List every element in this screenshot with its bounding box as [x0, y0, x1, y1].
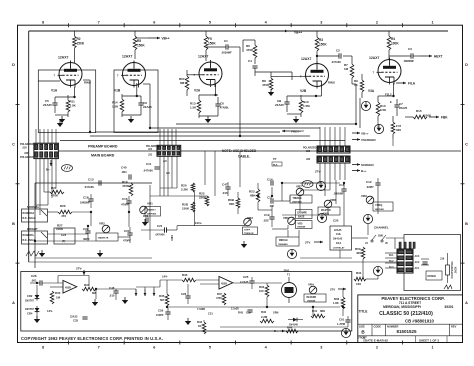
capacitor C91 — [345, 319, 350, 321]
svg-text:.020: .020 — [22, 147, 27, 150]
connector J32 — [317, 156, 350, 163]
stage box V1A — [38, 70, 95, 133]
capacitor C14 — [270, 180, 272, 185]
ground circle a — [361, 101, 370, 110]
svg-text:NOTE: USE SHIELDED: NOTE: USE SHIELDED — [222, 149, 257, 153]
capacitor C16 — [126, 200, 131, 202]
svg-text:C20: C20 — [333, 219, 339, 223]
svg-text:7.040B: 7.040B — [197, 308, 205, 311]
svg-text:1M0B48: 1M0B48 — [297, 226, 306, 229]
resistor R2 — [73, 31, 75, 36]
svg-text:3: 3 — [320, 21, 322, 25]
ground rev2 — [122, 300, 128, 304]
wire tone left vertical — [34, 183, 36, 258]
resistor R5b — [205, 31, 207, 36]
svg-text:PREV=: PREV= — [291, 130, 301, 134]
svg-text:68K: 68K — [250, 194, 256, 198]
capacitor C15 — [341, 188, 346, 190]
enclosure footswitch box — [404, 235, 461, 291]
wire V2A output drop — [239, 47, 241, 136]
tube V1B — [123, 63, 146, 86]
svg-text:R44M61B+: R44M61B+ — [23, 234, 35, 237]
svg-text:C29: C29 — [158, 309, 164, 313]
svg-text:R31: R31 — [356, 271, 362, 275]
ground V1B — [128, 119, 134, 123]
chassis ground tone top — [302, 181, 313, 188]
wire R8 top — [255, 71, 292, 73]
svg-text:476: 476 — [61, 214, 66, 218]
svg-text:SIZE: SIZE — [359, 324, 365, 328]
svg-text:LEVRELAY: LEVRELAY — [333, 247, 345, 250]
wires into J45 — [385, 252, 397, 254]
wires below J20 — [35, 159, 37, 178]
svg-text:FILA: FILA — [408, 82, 416, 86]
capacitor C28 — [185, 295, 190, 297]
wire reverb bottom bus — [220, 326, 348, 328]
svg-text:C3: C3 — [408, 47, 412, 51]
svg-text:CB #98801910: CB #98801910 — [405, 318, 435, 323]
svg-text:MASTER: MASTER — [321, 209, 331, 212]
svg-text:1M0P48S: 1M0P48S — [147, 213, 157, 216]
resistor R40 — [260, 319, 274, 323]
wire V2A grid — [187, 74, 198, 76]
capacitor C6 — [215, 103, 220, 105]
svg-text:C14: C14 — [267, 178, 273, 182]
resistor R34 — [82, 287, 96, 291]
svg-text:R30: R30 — [55, 291, 61, 295]
svg-text:E: E — [390, 100, 392, 104]
svg-text:1M(4M17: 1M(4M17 — [147, 209, 157, 212]
connector J22 — [317, 146, 350, 153]
svg-text:VSCREEN: VSCREEN — [361, 138, 376, 142]
svg-text:5: 5 — [209, 346, 211, 350]
wires above J21 — [159, 129, 161, 145]
zone ticks left/right — [16, 104, 20, 106]
svg-text:1M(4M17B: 1M(4M17B — [98, 237, 109, 240]
wire V2B output drops — [355, 84, 357, 124]
wire mid horizontal bus 5 — [176, 123, 356, 125]
resistor R4 — [388, 31, 390, 36]
capacitor C11 — [154, 166, 159, 168]
diode D 1N4148 — [293, 319, 298, 321]
arrow VB++ right — [352, 132, 360, 134]
svg-text:100K: 100K — [391, 42, 399, 46]
wire tone row 232 — [48, 233, 89, 235]
svg-text:12AX7: 12AX7 — [122, 55, 132, 59]
svg-text:27V-: 27V- — [76, 267, 82, 271]
wire tone bottom — [35, 257, 152, 259]
svg-text:1K: 1K — [198, 324, 202, 328]
svg-text:A/U: A/U — [166, 172, 170, 175]
ground circle tone 1 — [317, 213, 326, 222]
wires tone pots — [282, 182, 340, 184]
svg-text:6M: 6M — [180, 81, 185, 85]
capacitor C21 — [145, 217, 147, 222]
svg-text:VR7: VR7 — [296, 185, 302, 189]
svg-text:J20: J20 — [24, 151, 29, 155]
svg-text:.001: .001 — [31, 279, 37, 283]
diodes J45 right — [421, 258, 429, 260]
resistor R9 — [360, 80, 364, 92]
tube V2A — [199, 62, 222, 85]
svg-text:A: A — [12, 301, 15, 305]
ground V2A — [205, 119, 211, 123]
wire reverb verticals — [166, 280, 168, 294]
svg-text:MIDDLE: MIDDLE — [279, 240, 288, 242]
svg-text:VR3: VR3 — [247, 216, 253, 220]
svg-text:.015: .015 — [222, 191, 228, 195]
wire top supply bus — [29, 30, 448, 32]
svg-text:TP: TP — [273, 157, 277, 161]
svg-text:T1: T1 — [287, 273, 291, 277]
svg-text:22A25: 22A25 — [143, 105, 152, 109]
resistor R35 — [165, 294, 169, 306]
resistor R11 — [66, 100, 70, 112]
svg-text:1M0P48S: 1M0P48S — [292, 200, 302, 203]
svg-text:NUMBER: NUMBER — [387, 324, 399, 328]
svg-text:8: 8 — [42, 346, 44, 350]
svg-text:RING: RING — [84, 81, 91, 85]
reverb circuit box — [21, 272, 352, 332]
chassis ground J20 — [62, 165, 73, 172]
svg-text:R44: R44 — [287, 326, 293, 330]
svg-text:CR4: CR4 — [27, 312, 33, 316]
svg-text:1.5K: 1.5K — [70, 104, 77, 108]
svg-text:C11: C11 — [146, 162, 152, 166]
wire V1B cathode — [122, 95, 141, 97]
svg-text:SCREEN: SCREEN — [361, 163, 374, 167]
wire long drop a — [204, 151, 206, 185]
pot VR9 — [366, 196, 374, 204]
svg-text:C31: C31 — [208, 312, 213, 316]
wire opamp2 out — [233, 282, 252, 284]
capacitor C9 — [138, 102, 143, 104]
svg-text:39PF: 39PF — [83, 237, 90, 241]
capacitor C7 — [394, 104, 399, 106]
svg-text:GHPF: GHPF — [244, 230, 251, 232]
svg-text:100K: 100K — [56, 227, 64, 231]
svg-text:TREMOR: TREMOR — [244, 233, 254, 235]
svg-text:1.8K: 1.8K — [333, 301, 339, 305]
svg-text:MERIDIAN, MISSISSIPPI: MERIDIAN, MISSISSIPPI — [383, 305, 421, 309]
resistor R20 — [191, 183, 195, 192]
svg-text:J21: J21 — [148, 148, 153, 151]
svg-text:V2A: V2A — [194, 89, 201, 93]
wire tone top bus — [35, 182, 152, 184]
svg-text:81501525: 81501525 — [396, 329, 417, 334]
resistor R22 — [205, 196, 209, 206]
chassis tone — [26, 251, 39, 256]
ground VR1 — [142, 222, 148, 226]
svg-text:470K: 470K — [262, 83, 270, 87]
wire stage4 in drop — [291, 72, 293, 80]
wire mid horizontal bus 2 — [60, 140, 345, 142]
tube V1A — [59, 63, 82, 86]
svg-text:-1M: -1M — [269, 204, 274, 208]
svg-text:1: 1 — [432, 346, 434, 350]
wire eq bus lower — [177, 225, 245, 227]
pot VR1 — [140, 206, 148, 214]
capacitor C2 — [338, 53, 340, 58]
capacitor C29 — [165, 311, 170, 313]
opamp U1A feedback — [57, 276, 59, 284]
switch contacts — [371, 240, 373, 242]
svg-text:GRN: GRN — [273, 312, 279, 315]
svg-text:C2: C2 — [336, 49, 340, 53]
pot VR4 — [309, 286, 317, 294]
svg-text:BL1: BL1 — [389, 254, 394, 257]
ground circle b — [374, 124, 383, 133]
svg-text:22A25: 22A25 — [275, 103, 284, 107]
wire preamp/main board separator — [59, 150, 461, 152]
svg-text:DATE E-MAR-92: DATE E-MAR-92 — [365, 338, 388, 342]
svg-text:POLARIZED: POLARIZED — [20, 156, 34, 159]
resistor R3 — [316, 31, 318, 37]
resistor F47 — [391, 122, 395, 134]
svg-text:VR9: VR9 — [361, 194, 367, 198]
svg-text:470K: 470K — [246, 48, 254, 52]
wire left boundary lower — [34, 258, 36, 268]
wire V1B output drop — [149, 84, 151, 128]
svg-text:.015: .015 — [109, 294, 115, 298]
svg-text:J19: J19 — [440, 258, 445, 261]
capacitor C12 — [375, 182, 380, 184]
wires J20 to jacks — [35, 178, 37, 209]
svg-text:60K: 60K — [229, 202, 235, 206]
capacitor C22 — [85, 230, 90, 232]
arrow FBK — [429, 116, 439, 118]
svg-text:C48: C48 — [109, 286, 115, 290]
wires J21 down — [159, 182, 161, 196]
svg-text:BASE: BASE — [298, 215, 305, 218]
svg-text:X1B1: X1B1 — [172, 234, 174, 240]
wires tone pots 2 — [299, 196, 301, 212]
connector J45 — [397, 249, 413, 273]
svg-text:C19: C19 — [264, 213, 270, 217]
junction dots — [239, 135, 241, 137]
resistor R6 — [253, 45, 257, 58]
wire jack to R26 — [48, 211, 59, 213]
wire reverb bus — [30, 282, 40, 284]
svg-text:.1M05MF: .1M05MF — [333, 193, 344, 196]
svg-text:12AX7: 12AX7 — [369, 56, 379, 60]
svg-text:C26: C26 — [181, 292, 187, 296]
capacitor C47 — [225, 186, 230, 188]
svg-text:27V: 27V — [305, 241, 310, 245]
wires above J20 — [35, 129, 37, 143]
svg-text:39301: 39301 — [444, 305, 453, 309]
svg-text:2.2M: 2.2M — [261, 315, 268, 319]
svg-text:R4: R4 — [391, 37, 395, 41]
svg-text:R3: R3 — [319, 38, 323, 42]
svg-text:1N41+B: 1N41+B — [333, 238, 342, 241]
svg-text:VR8: VR8 — [330, 198, 336, 202]
pot VR6 — [288, 217, 296, 225]
ground above J20 — [57, 123, 63, 127]
svg-text:C47: C47 — [222, 183, 228, 187]
resistor R8 — [269, 78, 273, 90]
svg-text:CHAMPE: CHAMPE — [297, 211, 307, 214]
svg-text:1.5K: 1.5K — [112, 105, 119, 109]
capacitor C1 — [225, 44, 227, 49]
svg-text:C6: C6 — [220, 102, 224, 106]
svg-text:C13: C13 — [88, 178, 94, 182]
capacitor C21 — [164, 227, 166, 232]
ground tone left — [39, 253, 45, 257]
resistor R21 — [50, 190, 64, 194]
label MIDDLE box — [276, 237, 299, 246]
svg-text:.022: .022 — [263, 219, 269, 223]
wire phase drop — [377, 193, 379, 214]
svg-text:150K: 150K — [137, 44, 145, 48]
svg-text:R43: R43 — [238, 311, 243, 315]
svg-text:.001: .001 — [121, 170, 127, 174]
wire eq bus — [150, 195, 207, 197]
svg-text:VB++: VB++ — [162, 37, 170, 41]
svg-text:400: 400 — [356, 251, 361, 255]
wire labels above J45 — [399, 242, 401, 249]
svg-text:CR2: CR2 — [27, 294, 33, 298]
svg-text:12AX7: 12AX7 — [198, 55, 208, 59]
wire V1A grid — [38, 80, 60, 82]
svg-text:2.2A35: 2.2A35 — [240, 280, 249, 284]
svg-text:C91: C91 — [339, 318, 345, 322]
wire channel area — [366, 278, 378, 280]
svg-text:1M0B48: 1M0B48 — [307, 299, 316, 302]
pot VR2 — [102, 225, 110, 233]
title col lines — [371, 324, 373, 336]
svg-text:A/U: A/U — [163, 160, 167, 163]
arrow SCREEN — [352, 164, 360, 166]
svg-text:AC3: AC3 — [415, 255, 420, 258]
svg-text:B: B — [12, 222, 15, 226]
capacitor C13 — [98, 180, 100, 185]
svg-text:1M0P485: 1M0P485 — [375, 208, 385, 211]
svg-text:R26: R26 — [60, 204, 66, 208]
svg-text:12AX7: 12AX7 — [301, 57, 311, 61]
capacitor C33 — [82, 316, 87, 318]
wire input left stage4 — [243, 39, 255, 41]
svg-text:J291: J291 — [283, 269, 290, 273]
svg-text:V1A: V1A — [51, 89, 58, 93]
svg-text:220K: 220K — [199, 196, 207, 200]
relay K2 box — [426, 271, 442, 280]
svg-text:TITLE: TITLE — [359, 309, 368, 313]
ground tone mid — [97, 253, 103, 257]
svg-text:4558: 4558 — [221, 282, 227, 286]
svg-text:100: 100 — [259, 289, 264, 293]
resistor R28 — [191, 202, 195, 212]
svg-text:FBK: FBK — [441, 116, 448, 120]
svg-text:R40: R40 — [261, 310, 267, 314]
svg-text:REV: REV — [451, 324, 457, 328]
wire left boundary — [28, 31, 30, 262]
svg-text:CODE: CODE — [374, 324, 382, 328]
svg-text:C25: C25 — [243, 275, 249, 279]
chassis footswitch — [444, 285, 452, 289]
capacitor C18 — [88, 198, 93, 200]
svg-text:100: 100 — [356, 282, 361, 286]
svg-text:R44M616A: R44M616A — [23, 212, 35, 215]
svg-text:8: 8 — [42, 21, 44, 25]
svg-text:BL3: BL3 — [389, 266, 394, 269]
svg-text:12AX7: 12AX7 — [58, 56, 68, 60]
resistor R7 — [350, 64, 354, 78]
svg-text:.047A60: .047A60 — [143, 169, 153, 173]
wire reverb low bus2 — [203, 320, 205, 322]
svg-text:C33: C33 — [73, 319, 78, 323]
svg-text:JACK: JACK — [455, 266, 458, 273]
resistor R5 — [134, 31, 136, 36]
arrow FILA — [396, 82, 406, 84]
svg-text:BRIGHT: BRIGHT — [27, 227, 38, 231]
svg-text:1M: 1M — [56, 296, 61, 300]
svg-text:FREQ.: FREQ. — [376, 204, 384, 207]
svg-text:R2: R2 — [77, 37, 81, 41]
wire V1A cathode — [55, 96, 75, 98]
svg-text:1.5M: 1.5M — [303, 104, 310, 108]
svg-text:2.2M: 2.2M — [181, 188, 188, 192]
svg-text:C18: C18 — [83, 196, 89, 200]
capacitor C26 — [39, 280, 41, 285]
svg-text:PREAMP BOARD: PREAMP BOARD — [88, 145, 118, 149]
svg-text:3: 3 — [320, 346, 322, 350]
connector J20 — [34, 143, 59, 158]
capacitor C4 — [252, 65, 257, 67]
svg-text:27V: 27V — [330, 288, 335, 292]
resistor R26 — [58, 210, 72, 214]
ground V2B — [293, 119, 299, 123]
svg-text:.22MY: .22MY — [366, 185, 374, 189]
capacitor C3 — [410, 53, 412, 58]
svg-text:68K: 68K — [320, 309, 325, 313]
svg-text:RING: RING — [328, 81, 335, 85]
wires above J22 — [319, 127, 321, 146]
svg-text:B.R. ANGLE: B.R. ANGLE — [23, 217, 37, 220]
svg-text:K1A: K1A — [336, 241, 341, 245]
resistor R36 — [341, 297, 345, 309]
svg-text:470C: 470C — [216, 296, 222, 300]
diode CR2 — [35, 295, 40, 299]
wire V1A output drop — [89, 80, 91, 132]
svg-text:J22: J22 — [306, 150, 311, 153]
opamp U1B — [219, 277, 233, 290]
ground R8 — [268, 92, 274, 96]
svg-text:MAIN BOARD: MAIN BOARD — [91, 154, 115, 158]
ground V1A — [59, 119, 65, 123]
svg-text:150K: 150K — [182, 207, 190, 211]
svg-text:.0470400: .0470400 — [155, 234, 165, 237]
svg-text:R37: R37 — [217, 292, 222, 296]
resistor R37 — [222, 293, 226, 305]
wire bottom long bus — [29, 261, 352, 263]
svg-text:5: 5 — [209, 21, 211, 25]
svg-text:BL2: BL2 — [389, 260, 394, 263]
wire mid horizontal bus 1 — [90, 135, 310, 137]
resistor R42 — [202, 322, 206, 334]
svg-text:1M0B48S: 1M0B48S — [278, 243, 288, 246]
svg-text:150K: 150K — [208, 42, 216, 46]
wire diode string — [36, 285, 38, 293]
svg-text:1: 1 — [432, 21, 434, 25]
arrow HEXT — [420, 55, 432, 57]
svg-text:C12: C12 — [366, 180, 372, 184]
svg-text:14V-: 14V- — [47, 309, 53, 313]
svg-text:100PF: 100PF — [156, 313, 164, 317]
wire R33 to opamp — [196, 279, 219, 281]
arrows small row — [135, 289, 137, 296]
wire long drop b — [239, 151, 241, 187]
